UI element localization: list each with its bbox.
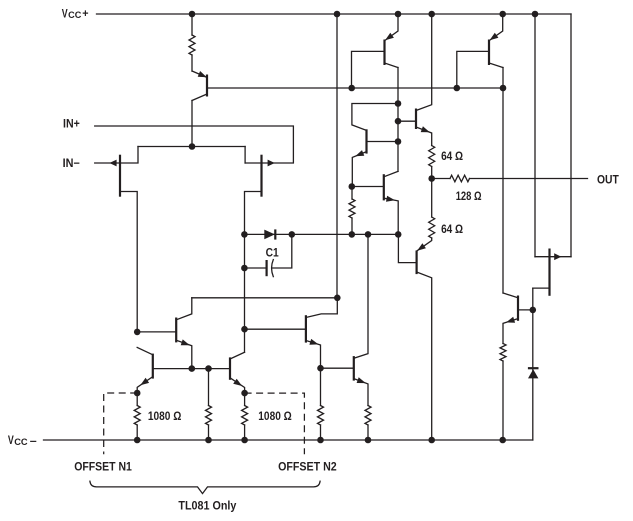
node R2 bottom bbox=[349, 231, 356, 238]
label IN+ bbox=[63, 119, 80, 131]
transistor Q2 (PNP mirror, top middle) bbox=[352, 14, 399, 88]
resistor R2 (Q6 base pulldown) bbox=[349, 187, 355, 235]
resistor R1 (bias resistor under VCC+ rail) bbox=[189, 14, 195, 71]
transistor Q13 (NPN output driver, mirrored) bbox=[503, 293, 533, 344]
svg-text:1080 Ω: 1080 Ω bbox=[148, 409, 182, 423]
svg-text:128 Ω: 128 Ω bbox=[456, 189, 482, 203]
transistor Q5 (NPN emitter follower to output resistors) bbox=[398, 14, 432, 146]
svg-text:64 Ω: 64 Ω bbox=[441, 222, 463, 236]
transistor Q10 (NPN mirror, right of pair) bbox=[230, 352, 245, 393]
node tail junction bbox=[189, 143, 196, 150]
svg-text:IN−: IN− bbox=[63, 158, 80, 170]
wire J3 lower lead to diode column x=532.8 bbox=[532, 288, 534, 440]
diode D1 (output clamp) bbox=[528, 368, 539, 378]
resistor R9 (x=320.5) bbox=[318, 368, 324, 440]
svg-text:C1: C1 bbox=[266, 246, 279, 260]
transistor Q4 (diode-connected NPN) bbox=[352, 104, 398, 187]
resistor R7 (x=208.5) bbox=[206, 369, 212, 440]
label VCC- bbox=[8, 433, 37, 448]
power rail VCC- wire bbox=[44, 439, 533, 441]
dashed lead OFFSET N2 bbox=[245, 393, 305, 454]
resistor R10 (x=368) bbox=[365, 406, 371, 441]
resistor R8 1080ohm (x=244.6) bbox=[242, 393, 248, 440]
label C1 bbox=[266, 246, 279, 260]
wire base bus y=88 from Q1 to Q6 collector bbox=[207, 87, 503, 89]
wire J2 drain column x=244.5 bbox=[244, 234, 246, 352]
node Q6 emitter tie bbox=[395, 231, 402, 238]
node offset N1 tap bbox=[134, 390, 141, 397]
wire OUT lead bbox=[470, 178, 588, 180]
label OFFSET N1 bbox=[74, 460, 132, 474]
svg-text:CC: CC bbox=[14, 437, 28, 448]
wire differential pair tail bbox=[138, 146, 245, 148]
node Q5 base tie bbox=[395, 118, 402, 125]
label VCC+ bbox=[62, 7, 89, 22]
node output resistor junction bbox=[428, 175, 435, 182]
wire Q3 collector column x=503 down to Q13 bbox=[502, 88, 504, 293]
transistor Q9 (NPN mirror, left) bbox=[137, 347, 230, 393]
node Q11 emitter / Q12 base bbox=[317, 365, 324, 372]
svg-text:V: V bbox=[8, 433, 14, 447]
svg-text:IN+: IN+ bbox=[63, 119, 80, 131]
label 128 ohm bbox=[456, 189, 482, 203]
wire IN- lead to J1 gate bbox=[95, 162, 120, 164]
svg-text:OUT: OUT bbox=[597, 172, 619, 186]
transistor Q12 (NPN, right mirror) bbox=[321, 234, 369, 405]
transistor Q8 (NPN mirror buffer, left) bbox=[137, 298, 192, 369]
wire IN+ lead to J2 gate bbox=[95, 126, 294, 163]
node Q5 base drop bbox=[348, 85, 355, 92]
svg-text:V: V bbox=[62, 7, 68, 21]
brace TL081 only bbox=[90, 481, 320, 493]
transistor Q11 (NPN cascode, middle) bbox=[245, 298, 338, 368]
junction dots on VCC+ rail bbox=[189, 11, 539, 18]
wire compensation node line y=235 bbox=[244, 233, 398, 235]
resistor R4 128ohm (series output) bbox=[432, 175, 470, 182]
label 1080 ohm left bbox=[148, 409, 182, 423]
dashed lead OFFSET N1 bbox=[104, 393, 138, 454]
wire second stage feed y=298 bbox=[192, 297, 337, 299]
wire mirror rail x=337 from VCC+ bbox=[336, 14, 338, 298]
resistor R5 64ohm (lower) bbox=[429, 179, 435, 239]
wire gain-node column x=398 bbox=[397, 68, 399, 172]
svg-text:TL081 Only: TL081 Only bbox=[178, 498, 236, 512]
JFET J3 (output current source) bbox=[533, 249, 571, 296]
node Q12 collector tie bbox=[365, 231, 372, 238]
svg-text:+: + bbox=[82, 8, 88, 20]
svg-text:OFFSET N1: OFFSET N1 bbox=[74, 460, 132, 474]
transistor Q1 (PNP current source, top left) bbox=[192, 71, 207, 147]
node Q6 collector at y88 bbox=[500, 85, 507, 92]
node Q11 base pickoff bbox=[241, 326, 248, 333]
node Q4 base tie bbox=[395, 138, 402, 145]
svg-text:64 Ω: 64 Ω bbox=[441, 149, 463, 163]
label 1080 ohm right bbox=[258, 409, 292, 423]
diode D2 (across compensation loop) bbox=[264, 229, 275, 239]
label TL081 Only bbox=[178, 498, 236, 512]
label IN- bbox=[63, 158, 80, 170]
resistor R3 64ohm (upper) bbox=[429, 146, 435, 179]
label OFFSET N2 bbox=[278, 460, 337, 474]
svg-text:1080 Ω: 1080 Ω bbox=[258, 409, 292, 423]
label OUT bbox=[597, 172, 619, 186]
resistor R11 (Q13 emitter) bbox=[500, 344, 506, 441]
transistor Q7 (PNP output, lower) bbox=[398, 234, 431, 440]
node Q6 base / R2 top bbox=[349, 183, 356, 190]
label 64 ohm lower bbox=[441, 222, 463, 236]
node C1 branch bbox=[241, 265, 248, 272]
node Q6 base drop bbox=[454, 85, 461, 92]
svg-text:−: − bbox=[30, 436, 37, 448]
transistor Q6 (NPN second stage) bbox=[352, 171, 399, 234]
power rail VCC+ wire bbox=[97, 13, 572, 15]
capacitor C1 bbox=[244, 234, 291, 276]
node y298 right bbox=[334, 295, 341, 302]
svg-text:CC: CC bbox=[68, 10, 81, 21]
node diode collector tie bbox=[395, 100, 402, 107]
junction dots on VCC- rail bbox=[134, 437, 506, 444]
JFET J2 (non-inverting input, p-channel) bbox=[245, 147, 275, 235]
node R7 top bbox=[205, 365, 212, 372]
node J1 drain / Q8 base bbox=[134, 329, 141, 336]
JFET J1 (inverting input, p-channel) bbox=[109, 147, 138, 332]
node C1 left bbox=[241, 231, 248, 238]
wire right edge from VCC+ rail down to output JFET bbox=[570, 14, 572, 257]
resistor R6 1080ohm (left, x=137) bbox=[134, 393, 140, 440]
node offset N2 tap bbox=[241, 390, 248, 397]
node Q8 emitter / Q9 base bbox=[189, 365, 196, 372]
wire VCC+ rail to J3 x=535 bbox=[534, 14, 536, 257]
transistor Q3 (PNP mirror, top right) bbox=[457, 14, 503, 88]
svg-text:OFFSET N2: OFFSET N2 bbox=[278, 460, 337, 474]
label 64 ohm upper bbox=[441, 149, 463, 163]
node Q13 base bbox=[530, 307, 537, 314]
node C1 right bbox=[289, 231, 296, 238]
